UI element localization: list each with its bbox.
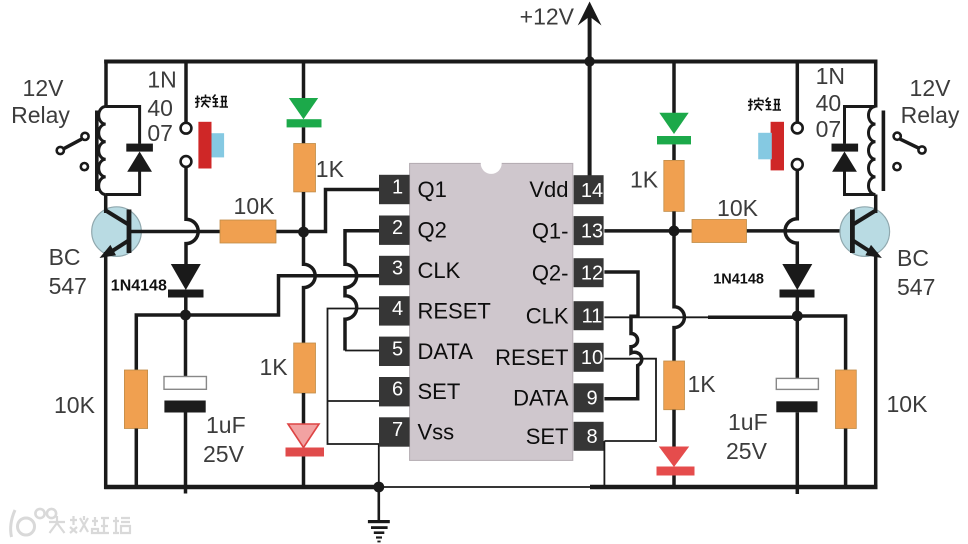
diode D8 1N4007 (right relay flyback): cathode bar bbox=[832, 144, 859, 152]
wire: C1 to bottom bus bbox=[184, 413, 188, 494]
wire: pin 13 to right node C bbox=[604, 229, 852, 233]
svg-text:4: 4 bbox=[392, 298, 403, 320]
svg-text:12: 12 bbox=[581, 263, 603, 285]
svg-text:547: 547 bbox=[897, 274, 935, 300]
wire: left pushbutton column from bus bbox=[184, 62, 188, 123]
wire: top +12V bus bbox=[104, 60, 877, 64]
wire: button to hop over pin13 wire (right) bbox=[785, 170, 797, 265]
node D: junction dot right lower bbox=[792, 311, 803, 322]
node B: junction dot left lower bbox=[180, 310, 191, 321]
resistor R8 10K (right vertical) bbox=[836, 370, 857, 429]
diode D7 1N4148 (right): triangle bbox=[782, 264, 812, 290]
transistor Q1 BC547 (left): body circle bbox=[92, 207, 142, 257]
IC U1 right pin boxes 14-8 bbox=[574, 175, 604, 451]
wire: bottom bus thick right bbox=[590, 485, 878, 490]
inductor: relay K1 coil (left) bbox=[99, 107, 106, 195]
wire: R6 to node C bbox=[672, 211, 676, 231]
svg-text:10: 10 bbox=[581, 347, 603, 369]
svg-text:BC: BC bbox=[897, 245, 929, 271]
svg-text:CLK: CLK bbox=[526, 303, 569, 328]
svg-text:+12V: +12V bbox=[520, 4, 575, 30]
LED D6 cathode bar bbox=[657, 467, 695, 476]
wire: CLK left (node B to pin 3) bbox=[186, 276, 380, 315]
watermark logo bbox=[11, 509, 56, 537]
svg-text:9: 9 bbox=[586, 388, 597, 410]
resistor R4 1K (left lower) bbox=[294, 343, 316, 393]
svg-text:CLK: CLK bbox=[418, 258, 461, 283]
wire: C2 to bottom bus bbox=[796, 412, 800, 494]
IC U1 pin numbers right bbox=[581, 180, 603, 448]
svg-text:40: 40 bbox=[816, 90, 842, 116]
node E: ground junction dot bbox=[373, 482, 384, 493]
pushbutton SW1 actuator blue bbox=[212, 133, 225, 157]
capacitor C2 1uF25V (right) top plate bbox=[776, 378, 818, 389]
svg-text:1K: 1K bbox=[688, 371, 717, 397]
Q2 collector diagonal bbox=[853, 211, 876, 225]
wire: thin into pin 5 bbox=[345, 350, 380, 352]
svg-text:8: 8 bbox=[586, 426, 597, 448]
svg-text:RESET: RESET bbox=[495, 345, 568, 370]
diode D2 1N4148 cathode bar bbox=[168, 290, 204, 298]
svg-text:BC: BC bbox=[49, 244, 81, 270]
diode D1 1N4007 (left relay flyback): cathode bar bbox=[126, 144, 153, 152]
wire: node D right to 10K vertical bbox=[797, 316, 845, 370]
pushbutton SW2 actuator red bbox=[771, 122, 784, 171]
resistor R3 1K (left upper) bbox=[294, 144, 316, 192]
capacitor C1 1uF25V (left) top plate bbox=[164, 377, 206, 390]
wire: right pushbutton column from bus bbox=[796, 62, 800, 123]
relay contact switch (right) bbox=[893, 133, 925, 171]
IC U1 left pin labels bbox=[418, 177, 491, 445]
wire: D7 to node D bbox=[796, 298, 800, 317]
wire: R4 to LED D4 bbox=[302, 393, 306, 425]
svg-text:2: 2 bbox=[392, 217, 403, 239]
svg-text:Q1-: Q1- bbox=[532, 218, 569, 243]
Q2 emitter arrowhead bbox=[865, 245, 882, 258]
wire: Q1 base to 10K and node A bbox=[131, 190, 380, 232]
svg-text:547: 547 bbox=[49, 273, 87, 299]
wire: left LED column from bus bbox=[302, 62, 306, 100]
pushbutton SW1 contacts (left) bbox=[181, 123, 192, 134]
resistor R1 10K (left base resistor) bbox=[220, 220, 276, 243]
IC U1 body bbox=[410, 163, 573, 460]
diode D1 1N4007 triangle bbox=[127, 152, 152, 172]
wire: pin 12 to pin 9 feedback with jog and hops bbox=[604, 272, 641, 399]
wire: pin 6 SET thin routing bbox=[328, 400, 380, 402]
svg-text:13: 13 bbox=[581, 220, 603, 242]
wire: left edge bus top segment bbox=[104, 60, 108, 108]
svg-text:7: 7 bbox=[392, 419, 403, 441]
LED D5 cathode bar bbox=[657, 136, 691, 144]
svg-text:11: 11 bbox=[582, 306, 603, 328]
svg-text:25V: 25V bbox=[726, 438, 768, 464]
wire: button to hop over base wire (left) bbox=[186, 167, 198, 265]
LED D3 cathode bar bbox=[287, 119, 322, 127]
wire: LED D5 to R6 bbox=[672, 144, 676, 160]
IC U1 left pin boxes 1-7 bbox=[379, 175, 410, 447]
svg-text:5: 5 bbox=[392, 338, 403, 360]
svg-text:1N: 1N bbox=[816, 63, 845, 89]
svg-text:DATA: DATA bbox=[418, 339, 474, 364]
svg-text:25V: 25V bbox=[203, 441, 245, 467]
pushbutton SW2 actuator blue bbox=[758, 133, 772, 160]
wire: right edge bus top segment bbox=[874, 60, 878, 108]
svg-text:Vss: Vss bbox=[418, 420, 455, 445]
pushbutton SW2 contacts (right) bbox=[792, 123, 803, 134]
watermark text 大数跨境 hand-drawn bbox=[49, 516, 130, 533]
svg-text:1: 1 bbox=[392, 177, 403, 199]
wire: pin 2 to DATA pin 5 feedback with hops bbox=[345, 231, 380, 351]
label 按钮 (right) hand-drawn glyphs bbox=[748, 98, 781, 111]
svg-text:07: 07 bbox=[147, 120, 173, 146]
node A: junction dot left bbox=[298, 227, 309, 238]
LED D5 green (right): triangle bbox=[659, 113, 688, 134]
svg-text:DATA: DATA bbox=[513, 386, 569, 411]
resistor R2 10K (left vertical) bbox=[124, 370, 147, 429]
svg-text:Q2: Q2 bbox=[418, 218, 447, 243]
svg-text:12V: 12V bbox=[910, 75, 952, 101]
wire: node B left to 10K vertical bbox=[136, 315, 185, 371]
wire: node B down to capacitor C1 bbox=[184, 315, 188, 377]
resistor R6 1K (right upper) bbox=[664, 160, 684, 211]
svg-text:10K: 10K bbox=[54, 392, 96, 418]
svg-text:1uF: 1uF bbox=[206, 412, 246, 438]
wire: relay K1 frame (left) bbox=[106, 107, 140, 195]
svg-text:SET: SET bbox=[526, 424, 569, 449]
wire: bottom bus thick left bbox=[104, 485, 380, 490]
pushbutton SW1 actuator red bbox=[198, 122, 211, 169]
svg-text:6: 6 bbox=[392, 379, 403, 401]
wire: pin 11 CLK thin then thick to node D bbox=[604, 316, 709, 318]
wire: relay K2 frame (right) bbox=[845, 107, 876, 195]
wire: node D down to capacitor C2 bbox=[796, 316, 800, 378]
svg-text:Q2-: Q2- bbox=[532, 260, 569, 285]
node +12V supply: dot on top bus bbox=[584, 56, 594, 66]
relay K2 coil core bar (right) bbox=[882, 111, 886, 192]
capacitor C2 bottom plate bbox=[776, 401, 817, 412]
wire: R2 to bottom bus bbox=[135, 429, 139, 488]
svg-text:10K: 10K bbox=[234, 193, 276, 219]
wire: R7 to LED D6 bbox=[672, 410, 676, 447]
Q1 emitter arrowhead bbox=[100, 245, 117, 258]
IC U1 right pin labels bbox=[495, 177, 569, 449]
wire: pin 10 RESET thin routing to pin 8 and ground bus bbox=[604, 359, 656, 486]
relay contact switch (left) bbox=[57, 133, 89, 170]
label 按钮 (left) hand-drawn glyphs bbox=[195, 95, 228, 108]
wire: bottom bus thin middle bbox=[379, 486, 592, 488]
svg-text:40: 40 bbox=[147, 95, 173, 121]
svg-text:Vdd: Vdd bbox=[529, 177, 568, 202]
svg-text:Relay: Relay bbox=[11, 102, 70, 128]
resistor R5 10K (right base resistor) bbox=[692, 220, 747, 243]
diode D2 1N4148 (left): triangle bbox=[171, 264, 201, 290]
wire: D4 to bottom bus bbox=[302, 457, 306, 488]
node C: junction dot right bbox=[669, 226, 680, 237]
svg-text:1N: 1N bbox=[147, 66, 176, 92]
inductor: relay K2 coil (right) bbox=[868, 107, 875, 195]
LED D3 green (left): triangle bbox=[289, 98, 318, 119]
capacitor C1 bottom plate bbox=[164, 401, 205, 413]
ground symbol bbox=[377, 487, 380, 522]
svg-text:1K: 1K bbox=[316, 156, 345, 182]
svg-text:1N4148: 1N4148 bbox=[713, 272, 764, 288]
Q1 base bar bbox=[127, 210, 132, 254]
wire: right LED column from bus bbox=[672, 62, 676, 114]
wire: LED D3 to R3 bbox=[302, 127, 306, 143]
svg-text:3: 3 bbox=[392, 258, 403, 280]
Q2 emitter diagonal bbox=[853, 241, 876, 256]
svg-text:1uF: 1uF bbox=[728, 409, 768, 435]
IC U1 pin numbers left bbox=[392, 177, 403, 442]
svg-text:1K: 1K bbox=[260, 354, 289, 380]
resistor R7 1K (right lower) bbox=[664, 361, 685, 410]
+12V arrow bbox=[578, 2, 602, 26]
wire: D6 to bottom bus bbox=[672, 476, 676, 488]
wire: R3 down to node A bbox=[302, 192, 306, 232]
wire: node A down with hop over CLK wire, to R4 bbox=[304, 232, 316, 343]
Q1 collector diagonal bbox=[106, 211, 129, 225]
Q1 emitter diagonal bbox=[106, 241, 129, 256]
wire: +12V stem to pin 14 bbox=[588, 8, 592, 177]
diode D8 1N4007 triangle bbox=[832, 152, 857, 172]
LED D6 red (right): triangle bbox=[659, 447, 689, 468]
svg-text:14: 14 bbox=[581, 180, 603, 202]
wire: Q1 emitter lead down left edge bbox=[104, 252, 108, 489]
svg-text:SET: SET bbox=[418, 379, 461, 404]
relay switch arm (left) bbox=[64, 139, 82, 149]
wire: Q2 collector lead bbox=[874, 195, 878, 214]
svg-text:10K: 10K bbox=[717, 195, 759, 221]
IC U1 notch bbox=[481, 153, 502, 174]
svg-text:07: 07 bbox=[816, 116, 842, 142]
wire: R8 to bottom bus bbox=[844, 429, 848, 488]
relay K1 coil core bar (left) bbox=[95, 111, 99, 192]
wire: D2 to node B bbox=[184, 298, 188, 316]
wire: Q1 collector lead bbox=[104, 195, 108, 214]
Q2 base bar bbox=[850, 210, 855, 254]
svg-text:Q1: Q1 bbox=[418, 177, 447, 202]
transistor Q2 BC547 (right): body circle bbox=[840, 207, 890, 257]
LED D4 cathode bar bbox=[286, 448, 325, 457]
svg-text:10K: 10K bbox=[887, 391, 929, 417]
svg-text:RESET: RESET bbox=[418, 298, 491, 323]
svg-text:1K: 1K bbox=[630, 167, 659, 193]
wire: node C down with hop over CLK, to R7 bbox=[674, 231, 684, 361]
LED D4 red (left): triangle bbox=[288, 424, 319, 448]
relay switch arm (right) bbox=[900, 139, 920, 149]
wire: pin 4 RESET thin routing bbox=[328, 309, 380, 487]
svg-text:Relay: Relay bbox=[901, 102, 960, 128]
diode D7 1N4148 cathode bar bbox=[780, 290, 815, 298]
svg-text:12V: 12V bbox=[23, 75, 65, 101]
wire: Q2 emitter lead down right edge bbox=[874, 252, 878, 489]
svg-text:1N4148: 1N4148 bbox=[111, 278, 167, 295]
